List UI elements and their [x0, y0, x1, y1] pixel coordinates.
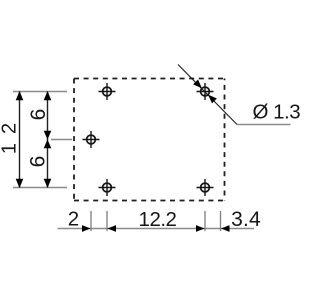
svg-text:12: 12 — [0, 114, 21, 154]
arrow 6 top — [44, 91, 52, 100]
leader horizontal line — [237, 124, 291, 126]
tick at left pin column — [106, 211, 108, 231]
svg-text:12.2: 12.2 — [139, 208, 177, 231]
tick at body right reference — [220, 211, 222, 231]
leader diagonal line — [178, 65, 237, 125]
svg-text:6: 6 — [27, 156, 50, 168]
extension line bottom row — [13, 187, 67, 189]
leader arrow lower — [208, 95, 217, 104]
svg-text:3.4: 3.4 — [231, 208, 261, 231]
arrow 12 bottom — [16, 179, 24, 188]
arrow 2 left — [82, 225, 91, 232]
svg-text:Ø 1.3: Ø 1.3 — [253, 101, 301, 124]
hole H2 (middle-left pin) — [83, 131, 100, 148]
arrow 6 bottom — [44, 179, 52, 188]
arrow 3.4 left — [221, 225, 230, 232]
hole H4 (bottom-right pin) — [197, 179, 214, 196]
dimension line 6/6 (vertical) — [47, 92, 49, 188]
arrow 12 top — [16, 91, 24, 100]
hole H5 (top-right pin, called out) — [197, 83, 214, 100]
arrow 12.2 left — [108, 225, 117, 232]
leader arrow upper — [193, 80, 202, 89]
dimension line 12 (vertical) — [19, 92, 21, 188]
arrow 6 middle down — [44, 131, 52, 140]
svg-text:6: 6 — [27, 109, 50, 121]
arrow 12.2 right — [196, 225, 205, 232]
hole H1 (top-left pin) — [99, 83, 116, 100]
relay body outline (dashed rectangle) — [74, 79, 225, 201]
svg-text:2: 2 — [68, 207, 79, 230]
bottom dimension line — [58, 228, 255, 230]
hole H3 (bottom-left pin) — [99, 179, 116, 196]
arrow 6 middle up — [44, 140, 52, 149]
tick at right pin column — [204, 211, 206, 231]
tick at offset pin column — [90, 211, 92, 231]
extension line top row — [13, 91, 67, 93]
extension line middle row — [51, 139, 72, 141]
